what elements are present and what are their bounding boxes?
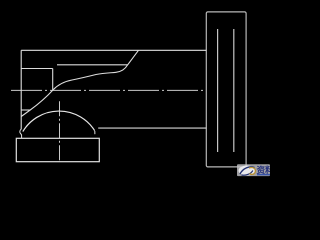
wire: mid horizontal edge [57, 64, 128, 66]
inner vertical line left [217, 29, 219, 152]
wire: inner step vertical [52, 69, 54, 91]
svg-text:资料: 资料 [257, 164, 271, 175]
inner vertical line right [233, 29, 235, 152]
bottom rectangle (base) [16, 138, 99, 161]
wire: horizontal centerline (chain line) [11, 89, 206, 91]
wire: inner step horizontal [21, 68, 53, 70]
arc right end tick [94, 131, 96, 134]
wire: left vertical edge [20, 50, 22, 129]
wire: top edge [21, 49, 206, 51]
watermark [237, 164, 274, 176]
wire: vertical centerline of dome (chain line) [59, 101, 61, 162]
S-profile curve [21, 50, 138, 116]
tall rectangle (right flange outline) [206, 12, 246, 167]
undercut groove hook [20, 129, 22, 138]
wire: solid horizontal line to flange [98, 127, 206, 129]
wire: short shoulder horizontal [21, 109, 30, 111]
dome arc [23, 111, 95, 132]
